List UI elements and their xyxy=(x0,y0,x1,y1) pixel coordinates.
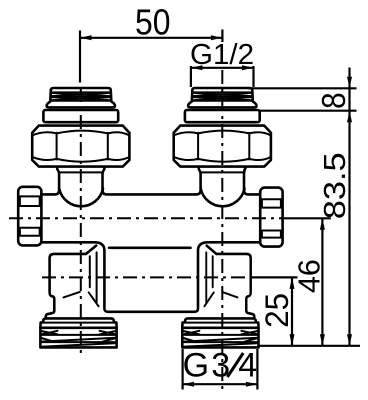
svg-text:83.5: 83.5 xyxy=(317,152,352,219)
svg-text:25: 25 xyxy=(259,293,295,328)
svg-text:50: 50 xyxy=(135,1,171,42)
svg-text:46: 46 xyxy=(291,259,326,293)
svg-text:G: G xyxy=(183,346,209,384)
svg-text:4: 4 xyxy=(238,346,257,384)
svg-text:8: 8 xyxy=(315,92,352,109)
svg-text:3: 3 xyxy=(211,346,230,384)
svg-text:G1/2: G1/2 xyxy=(190,39,254,71)
